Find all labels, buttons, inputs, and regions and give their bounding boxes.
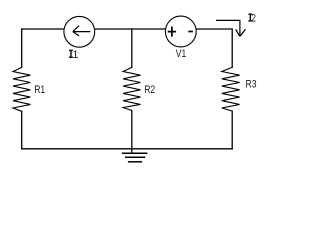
label I1: [69, 49, 79, 61]
wire I1 to V1 through node B: [95, 28, 166, 30]
voltage source V1: [165, 16, 196, 47]
svg-text:R2: R2: [144, 84, 155, 96]
svg-text:R3: R3: [246, 78, 257, 90]
current arrow I2: [216, 20, 245, 36]
wire bottom rail: [22, 148, 233, 150]
svg-text:V1: V1: [176, 48, 186, 60]
wire R2 bottom lead to ground: [131, 111, 133, 153]
resistor R3: [222, 67, 240, 111]
svg-text:2: 2: [251, 13, 256, 25]
label I2: [248, 13, 256, 25]
resistor R2: [123, 67, 140, 110]
svg-text:1: 1: [72, 49, 78, 61]
wire R3 bottom lead: [231, 111, 233, 149]
resistor R1: [13, 67, 30, 111]
current source I1: [64, 16, 95, 47]
wire node B down to R2: [131, 29, 133, 67]
wire top-left (node A to I1): [22, 28, 64, 30]
wire left vertical to R1: [21, 29, 23, 67]
svg-text:R1: R1: [34, 84, 45, 96]
ground: [122, 153, 148, 162]
wire V1 to top-right corner and down to R3: [196, 29, 232, 67]
wire R1 bottom lead: [21, 111, 23, 149]
